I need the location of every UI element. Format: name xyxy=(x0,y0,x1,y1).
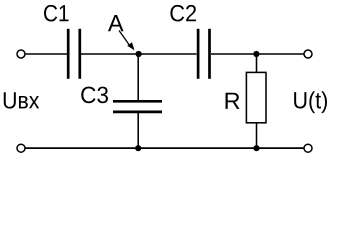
wire top rail to R xyxy=(256,54,258,73)
terminal input top xyxy=(17,50,25,58)
node A xyxy=(136,51,142,57)
wire R to bottom rail xyxy=(256,123,258,149)
capacitor C1 xyxy=(68,29,80,79)
label Uvx input voltage xyxy=(4,92,39,108)
arrow to node A xyxy=(119,31,135,51)
capacitor C2 xyxy=(198,29,209,79)
label C1 xyxy=(44,5,68,22)
wire bottom rail xyxy=(25,147,304,149)
junction C3 bottom xyxy=(135,145,141,151)
terminal input bottom xyxy=(17,144,25,152)
label R xyxy=(226,93,240,109)
label C3 xyxy=(81,87,108,104)
junction R bottom xyxy=(253,145,259,151)
terminal output top xyxy=(304,50,312,58)
wire C3 to bottom rail xyxy=(137,113,139,149)
wire top rail right segment xyxy=(211,53,304,55)
wire node A to C3 xyxy=(137,54,139,101)
wire top rail middle segment xyxy=(81,53,197,55)
capacitor C3 xyxy=(113,101,162,112)
wire top rail left segment xyxy=(25,53,67,55)
label A xyxy=(108,15,124,31)
junction R top xyxy=(253,51,259,57)
resistor R xyxy=(246,72,266,122)
label C2 xyxy=(170,5,196,22)
label U(t) output voltage xyxy=(294,91,327,113)
terminal output bottom xyxy=(304,144,312,152)
